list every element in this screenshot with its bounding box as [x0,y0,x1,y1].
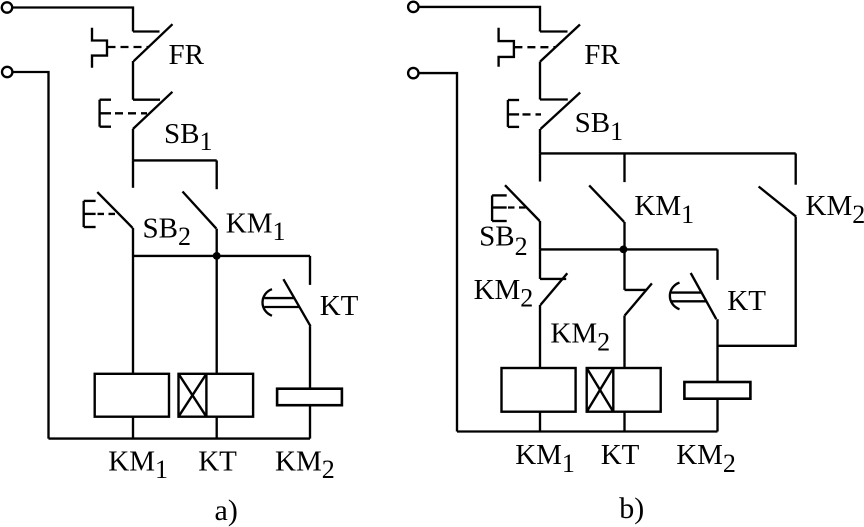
svg-text:KM: KM [474,274,521,306]
wire coil KM1 bottom (a) [132,417,134,439]
wire coil KT bottom (a) [216,417,218,439]
wire SB2 upper lead (b) [539,153,541,181]
contact KM1 upper lead (a) [216,160,218,189]
FR NC contact (b) [540,25,580,62]
wire L2 left rail (a) [13,72,49,439]
contact KM2 upper lead right branch (b) [795,153,797,184]
svg-text:FR: FR [584,39,620,71]
coil KM1 (a) [95,374,169,417]
svg-text:KM: KM [275,445,322,477]
coil KM2 (b) [684,382,750,399]
svg-text:b): b) [619,492,644,525]
terminal 2 (b) [408,68,418,78]
coil KM2 (a) [277,389,342,406]
bottom rail (a) [49,437,311,439]
label KM1 contact (b) [634,190,694,229]
wire SB1 to branch bar (b) [539,129,541,153]
bottom rail (b) [457,430,718,432]
pushbutton SB2 NO contact blade (a) [97,192,132,228]
svg-text:2: 2 [597,328,610,357]
time contact KT NO blade (a) [283,279,310,326]
svg-text:1: 1 [200,127,213,156]
svg-text:KM: KM [226,208,273,240]
label coil KM1 (a) [108,445,168,484]
pushbutton SB1 actuator E (b) [508,100,519,127]
label SB1 (a) [164,118,213,156]
FR NC contact (a) [133,24,173,61]
svg-text:1: 1 [610,117,623,146]
node junction bar (b) [540,248,718,250]
wire KM1 contact to coil KT (a) [216,229,218,374]
time contact KT NO blade (b) [691,273,717,319]
KT delay arc (a) [263,289,272,316]
svg-text:KT: KT [727,285,766,317]
wire L2 left rail (b) [419,73,457,431]
contact KM1 upper lead (b) [623,153,625,182]
wire L1 top (b) [419,7,540,32]
pushbutton SB2 actuator E (b) [492,195,507,221]
svg-text:1: 1 [681,200,694,229]
svg-text:KM: KM [634,190,681,222]
thermal relay FR heater hook (a) [92,28,107,68]
wire KT contact upper lead (a) [309,256,311,285]
contact KM2-left NC (b) [540,273,567,305]
svg-text:FR: FR [169,39,205,71]
svg-text:KM: KM [108,445,155,477]
KT delay chords (b) [671,293,706,302]
svg-text:KM: KM [676,439,723,471]
coil KM1 (b) [502,368,576,412]
wire KM1 contact to node (b) [623,222,625,250]
label SB2 (a) [143,212,192,251]
wire KT contact to coil KM2 (a) [309,326,311,389]
terminal 1 (b) [408,2,418,12]
svg-text:KT: KT [198,445,237,477]
svg-text:KM: KM [550,318,597,350]
wire KM2-left to coil KM1 (b) [539,305,541,368]
pushbutton SB2 NO contact blade (b) [505,185,540,221]
label SB1 (b) [575,107,624,146]
label coil KM2 (b) [676,439,736,478]
label KM1 contact (a) [226,208,286,247]
contact KM2-left NC upper lead (b) [539,249,541,279]
svg-text:2: 2 [723,449,736,478]
contact KM2-mid NC upper lead (b) [623,249,625,290]
wire SB2 to coil KM1 (a) [132,228,134,374]
pushbutton SB2 actuator E (a) [84,201,96,227]
svg-text:2: 2 [515,232,528,261]
svg-text:KT: KT [320,290,359,322]
wire SB2 upper lead (a) [132,160,134,187]
svg-text:2: 2 [520,284,533,313]
SB2 linkage dashes (b) [508,206,527,208]
label KM2-mid NC (b) [550,318,610,357]
wire KT contact to coil KM2 (b) [716,319,718,382]
pushbutton SB1 actuator E (a) [100,100,111,127]
label KM2-left NC (b) [474,274,534,313]
label coil KM1 (b) [515,439,575,478]
svg-text:2: 2 [852,200,864,229]
wire coil KM2 bottom (b) [716,399,718,432]
svg-text:KT: KT [601,439,640,471]
terminal 1 (a) [2,2,12,12]
contact KM2 NO blade right branch (b) [759,187,796,217]
coil KT box with X (b) [587,368,661,412]
wire SB1 to branch bar (a) [132,129,134,160]
node dot (b) [620,246,628,254]
svg-text:SB: SB [575,107,610,139]
wire FR to SB1 (a) [132,61,134,100]
wire FR to SB1 (b) [539,62,541,100]
wire KM2 right branch down (b) [718,217,796,346]
wire coil KM2 bottom (a) [309,405,311,438]
label SB2 (b) [479,221,527,261]
wire coil KM1 bottom (b) [539,412,541,432]
svg-text:1: 1 [562,449,575,478]
wire SB2 to node bar (b) [539,221,541,249]
thermal relay FR heater hook (b) [499,28,514,67]
node junction bar (a) [133,255,310,257]
SB1 linkage dashes (b) [523,113,542,115]
branch bar (b) [540,152,796,154]
node dot (a) [213,252,221,260]
wire L1 top (a) [12,8,133,32]
SB2 linkage dashes (a) [98,213,119,215]
svg-text:1: 1 [155,455,168,484]
KT delay chords (a) [264,298,299,307]
time contact KT upper lead (b) [716,249,718,280]
pushbutton SB1 NC contact (b) [540,93,580,130]
svg-text:1: 1 [273,217,286,246]
FR linkage dashes (a) [108,46,149,48]
label KM2 contact right (b) [806,190,864,229]
svg-text:2: 2 [178,222,191,251]
contact KM1 NO blade (b) [589,185,624,222]
SB1 linkage dashes (a) [115,112,147,114]
contact KM1 NO blade (a) [183,192,217,229]
pushbutton SB1 NC contact (a) [133,92,173,129]
label coil KM2 (a) [275,445,335,484]
svg-text:KM: KM [515,439,562,471]
KT delay arc (b) [670,283,680,310]
svg-text:SB: SB [164,118,199,150]
coil KT box with X (a) [179,374,254,417]
terminal 2 (a) [2,67,12,77]
svg-text:SB: SB [143,212,178,244]
svg-text:a): a) [215,494,238,527]
svg-text:SB: SB [479,221,514,253]
contact KM2-mid NC (b) [625,283,652,315]
wire coil KT bottom (b) [623,412,625,432]
branch bar (a) [133,159,217,161]
svg-text:2: 2 [322,455,335,484]
wire KM2-mid to coil KT (b) [623,316,625,369]
svg-text:KM: KM [806,190,853,222]
FR linkage dashes (b) [514,46,555,48]
